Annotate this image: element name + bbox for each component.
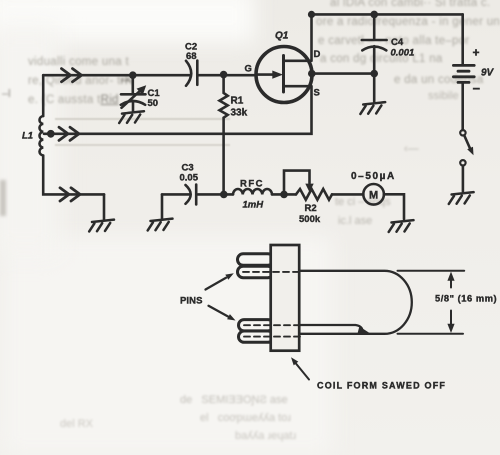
svg-text:S: S — [314, 88, 320, 99]
wire: meter to ground — [384, 194, 404, 219]
svg-text:Q1: Q1 — [275, 31, 289, 42]
svg-text:0–50µA: 0–50µA — [351, 171, 396, 182]
wire: L1 bottom to ground tap — [43, 156, 104, 195]
pin 2 — [238, 266, 274, 278]
arrow to flange (sawed off) — [291, 357, 309, 379]
wire: top rail — [312, 13, 463, 16]
node: L1 center tap — [47, 130, 55, 138]
ground (C4) — [360, 102, 385, 114]
battery 9V — [453, 14, 474, 130]
coil form flange — [271, 245, 300, 351]
sawed tube wall tip — [358, 327, 371, 334]
svg-text:+: + — [473, 46, 480, 60]
ground (C1) — [119, 111, 144, 123]
inductor L1 — [39, 116, 43, 155]
dimension extension lines — [398, 270, 465, 272]
svg-text:RFC: RFC — [240, 179, 264, 190]
node: R1 top junction — [220, 71, 228, 79]
svg-text:68: 68 — [186, 51, 197, 62]
wire: source down and feedback to L1 tap — [44, 86, 312, 134]
wire: to C3 — [162, 193, 189, 196]
ground (bottom tap) — [89, 220, 114, 232]
wire: L1 top to gate row corner — [42, 75, 45, 116]
node: drain-side tap — [308, 70, 316, 78]
svg-text:C4: C4 — [391, 37, 404, 48]
connector chevrons bottom tap — [60, 188, 80, 201]
svg-text:L1: L1 — [22, 131, 33, 142]
svg-text:0.001: 0.001 — [391, 48, 415, 59]
potentiometer R2 wiper loop — [284, 171, 314, 195]
wire: drain up to top rail — [310, 14, 313, 60]
faint table rules bleed — [55, 118, 230, 120]
transistor Q1 (JFET) — [256, 47, 312, 103]
svg-text:R2: R2 — [305, 203, 317, 214]
svg-text:D: D — [314, 49, 321, 60]
svg-text:500k: 500k — [299, 214, 321, 225]
wire: C2 right to gate — [199, 74, 254, 77]
svg-text:5/8ʺ (16 mm): 5/8ʺ (16 mm) — [435, 294, 497, 304]
svg-text:33k: 33k — [231, 108, 248, 119]
capacitor C2 — [186, 61, 197, 86]
capacitor C1 (variable, to ground) — [121, 75, 146, 110]
dimension arrows — [447, 272, 454, 333]
capacitor C4 — [362, 14, 387, 101]
ground (switch) — [449, 192, 474, 204]
connector chevrons top tap — [62, 69, 82, 82]
background bleed-through text (decorative) — [330, 0, 490, 9]
switch S1 — [460, 130, 473, 191]
svg-text:1mH: 1mH — [243, 200, 265, 211]
svg-text:50: 50 — [148, 98, 159, 109]
svg-text:0.05: 0.05 — [180, 173, 199, 184]
ground (meter) — [389, 220, 414, 232]
wire: gate row (top) — [43, 74, 189, 77]
wire: bottom tap down — [103, 194, 106, 219]
arrow to upper pins — [206, 273, 234, 289]
pin 4 — [239, 331, 274, 342]
resistor R2 — [296, 189, 332, 200]
node: R1 bottom junction — [220, 191, 228, 199]
node: C4 bottom junction — [370, 70, 378, 78]
wire: C3 to RFC junction — [198, 193, 233, 196]
wire: tap to C4 bottom — [312, 72, 374, 75]
wire: R2 to meter — [332, 193, 363, 196]
node: C1 junction — [129, 71, 137, 79]
node: C4 top — [370, 11, 378, 19]
svg-text:9V: 9V — [481, 68, 495, 79]
node: top rail left corner — [308, 11, 315, 18]
dashed lead (pin 3) — [244, 324, 302, 326]
dashed lead (pin 2) — [243, 271, 302, 273]
resistor R1 — [220, 75, 228, 195]
pin 3 — [239, 320, 274, 331]
dashed lead (pin 4) — [244, 336, 302, 338]
capacitor C3 — [186, 185, 197, 205]
svg-text:M: M — [369, 190, 378, 202]
connector chevrons middle tap — [59, 127, 79, 140]
inductor RFC 1mH — [233, 189, 272, 194]
wire: RFC to R2 — [272, 193, 296, 196]
coil form tube — [299, 271, 412, 334]
svg-text:−: − — [473, 81, 481, 96]
ground (C3) — [148, 219, 173, 231]
svg-text:PINS: PINS — [180, 296, 203, 307]
meter M 0-50uA — [363, 184, 384, 205]
svg-text:G: G — [245, 64, 252, 75]
wire: C3 left leg — [161, 194, 164, 218]
arrow to lower pins — [209, 306, 236, 321]
svg-text:COIL FORM SAWED OFF: COIL FORM SAWED OFF — [317, 381, 446, 391]
pin 1 — [238, 254, 274, 265]
svg-text:R1: R1 — [231, 96, 244, 107]
node: RFC/R2 junction — [280, 191, 288, 199]
